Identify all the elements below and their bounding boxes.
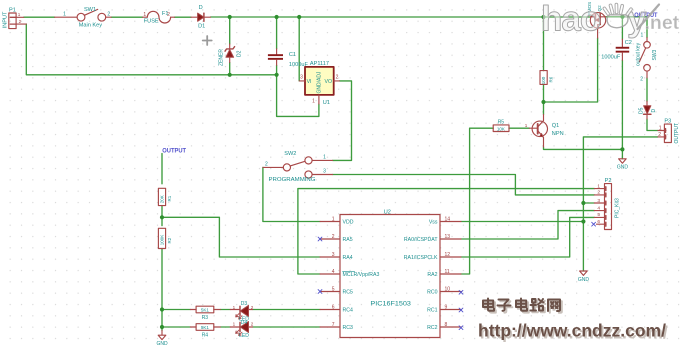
svg-text:2: 2 — [640, 77, 643, 83]
wire GND stub below C2 junction — [621, 149, 623, 158]
svg-text:GND: GND — [156, 341, 168, 347]
resistor R2 — [158, 228, 165, 248]
wire zener bottom — [229, 63, 231, 75]
svg-text:U2: U2 — [384, 210, 391, 216]
SW1 labels — [63, 7, 110, 28]
svg-text:2: 2 — [251, 305, 254, 310]
F1 labels — [143, 11, 170, 24]
svg-text:PROGRAMMING: PROGRAMMING — [269, 177, 316, 183]
zener diode D2 — [225, 44, 235, 63]
svg-text:RA5: RA5 — [343, 237, 353, 243]
svg-text:Q1: Q1 — [552, 123, 559, 129]
transistor Q2 PMOS — [590, 13, 605, 38]
wire C1 top — [276, 17, 278, 49]
svg-text:D: D — [199, 5, 203, 11]
wire rail to U1 VI — [298, 17, 300, 81]
MCU U2 PIC16F1503 — [320, 215, 461, 338]
wire SW2.3 to P2.2 — [333, 175, 595, 195]
svg-text:2: 2 — [336, 75, 339, 81]
wire SW3.2 to D5 — [646, 78, 648, 101]
svg-text:1000uF: 1000uF — [289, 62, 309, 68]
svg-text:D4: D4 — [241, 320, 248, 326]
P1 labels — [2, 8, 21, 29]
svg-text:2: 2 — [251, 322, 254, 327]
D5 labels — [638, 107, 657, 114]
LED D3 — [230, 305, 252, 319]
junction GND column P2.3 — [581, 201, 585, 205]
svg-text:1: 1 — [525, 123, 528, 128]
svg-text:1: 1 — [233, 305, 236, 310]
wire R1 to junction — [161, 206, 163, 226]
wire C2 top — [621, 17, 623, 39]
svg-text:2: 2 — [107, 12, 110, 18]
fuse F1 — [143, 11, 175, 23]
switch SW3 — [639, 38, 650, 78]
wire divider junction to U2 RA4 — [162, 217, 320, 257]
svg-text:1: 1 — [233, 322, 236, 327]
wire PMOS drain to SW3 corner — [606, 17, 647, 38]
svg-text:D3: D3 — [241, 301, 248, 307]
svg-text:2: 2 — [332, 234, 335, 240]
wire R6 bottom to gate junction — [543, 84, 545, 102]
svg-text:1: 1 — [312, 99, 315, 105]
svg-text:Vss: Vss — [429, 219, 438, 225]
svg-text:http://www.cndzz.com/: http://www.cndzz.com/ — [478, 321, 666, 341]
svg-text:RA4: RA4 — [343, 255, 353, 261]
resistor R6 — [540, 71, 547, 85]
Q1 labels — [552, 123, 564, 137]
R3 labels — [201, 308, 210, 321]
svg-text:8: 8 — [445, 322, 448, 328]
transistor Q1 NPN — [532, 115, 547, 148]
wire U1 VO to SW2.1 — [333, 81, 352, 160]
svg-text:U1: U1 — [323, 100, 330, 106]
svg-text:10K: 10K — [497, 126, 505, 131]
svg-text:3: 3 — [323, 169, 326, 175]
svg-text:RA2: RA2 — [427, 272, 437, 278]
svg-text:INPUT: INPUT — [2, 11, 8, 28]
wire Q1 emitter to GND junction — [544, 147, 623, 149]
wire U2 RA0/ICSPDAT to P2.4 — [461, 211, 594, 239]
svg-text:11: 11 — [445, 269, 450, 275]
junction rail-U1VI — [297, 15, 301, 19]
wire P1.1 to SW1 — [24, 16, 55, 18]
svg-text:5: 5 — [332, 286, 335, 292]
svg-text:P2: P2 — [605, 178, 612, 184]
watermark cndzz bottom right — [478, 299, 668, 343]
svg-text:GND: GND — [578, 277, 590, 283]
wire D5 to P3.1 — [647, 119, 658, 131]
wire LED branch 2 — [162, 326, 190, 328]
junction bottom-rail zener — [228, 73, 232, 77]
ground symbol bottom-left — [158, 331, 166, 340]
svg-text:R4: R4 — [202, 332, 209, 338]
svg-text:14: 14 — [445, 216, 451, 222]
LED D4 — [230, 322, 252, 336]
wire R5 to Q1 base — [509, 127, 529, 129]
svg-text:VO: VO — [325, 79, 333, 85]
wire SW2.2 to U2 VDD — [263, 167, 320, 221]
svg-text:6: 6 — [332, 304, 335, 310]
wire gate junction to Q2 gate — [544, 38, 598, 102]
svg-text:PIC16F1503: PIC16F1503 — [370, 302, 411, 308]
SW2 labels — [265, 151, 326, 183]
svg-text:100K: 100K — [159, 235, 164, 246]
wire MCLR net: P2.1 to U2 pin4 — [298, 189, 594, 274]
D4 labels — [233, 320, 254, 339]
svg-text:2: 2 — [167, 12, 170, 18]
svg-text:3: 3 — [300, 75, 303, 81]
no-connect crosses — [318, 222, 595, 329]
wire zener top — [229, 17, 231, 44]
svg-text:C1: C1 — [289, 52, 296, 58]
svg-text:5K1: 5K1 — [201, 325, 210, 330]
svg-text:13: 13 — [445, 234, 451, 240]
wire C1 bottom — [276, 65, 278, 75]
svg-text:AP1117: AP1117 — [310, 61, 329, 67]
svg-text:2: 2 — [597, 190, 600, 196]
C1 labels — [289, 52, 309, 68]
resistor R5 — [493, 125, 538, 132]
svg-text:1: 1 — [332, 216, 335, 222]
D3 labels — [233, 301, 254, 323]
svg-text:20K: 20K — [159, 195, 164, 203]
svg-text:4: 4 — [597, 205, 600, 211]
connector P3 — [658, 124, 672, 142]
svg-text:FUSE: FUSE — [144, 18, 159, 24]
svg-text:GND: GND — [617, 165, 629, 171]
svg-text:P3: P3 — [664, 119, 671, 125]
R1 labels — [159, 195, 172, 203]
svg-text:RC5: RC5 — [343, 289, 353, 295]
svg-text:12: 12 — [445, 252, 451, 258]
svg-text:C2: C2 — [625, 40, 632, 46]
svg-text:R5: R5 — [498, 119, 505, 125]
wire U1 GND/ADJ to bottom rail — [277, 75, 319, 117]
SW3 labels — [636, 33, 659, 83]
watermark haoyw.net top right — [541, 0, 680, 39]
switch SW1 — [55, 9, 112, 21]
svg-text:R6: R6 — [549, 76, 554, 82]
wire SW1 to F1 — [111, 16, 142, 18]
svg-text:10: 10 — [445, 286, 451, 292]
svg-text:hao: hao — [541, 0, 601, 39]
regulator U1 AP1117 — [299, 67, 339, 104]
svg-text:LED: LED — [239, 333, 249, 339]
junction rail-C1 — [275, 15, 279, 19]
svg-text:R1: R1 — [167, 195, 172, 201]
svg-text:RC3: RC3 — [343, 325, 353, 331]
R4 labels — [201, 325, 210, 338]
svg-text:P1: P1 — [9, 8, 16, 14]
junction LED branch2 — [160, 325, 164, 329]
Q2 labels — [587, 2, 602, 16]
junction bottom-rail C1 — [275, 73, 279, 77]
junction GND column Vss — [581, 219, 585, 223]
wire OUTPUT label to R1 — [161, 154, 163, 184]
wire P1.2 down and right (bottom rail) — [26, 24, 276, 75]
svg-text:5: 5 — [597, 212, 600, 218]
junction gate node — [541, 100, 545, 104]
svg-text:SW2: SW2 — [284, 151, 296, 157]
svg-text:100: 100 — [541, 76, 546, 84]
svg-text:R2: R2 — [167, 237, 172, 243]
svg-text:1: 1 — [597, 183, 600, 189]
svg-text:D5: D5 — [638, 107, 644, 114]
svg-text:PIC_Kit3: PIC_Kit3 — [614, 198, 620, 218]
switch SW2 — [263, 157, 333, 178]
svg-text:1000uF: 1000uF — [601, 55, 621, 61]
svg-text:2: 2 — [658, 132, 661, 138]
svg-text:GND/ADJ: GND/ADJ — [316, 71, 322, 93]
capacitor C1 — [268, 49, 283, 66]
R6 labels — [541, 76, 554, 84]
diode D1 — [191, 13, 211, 21]
svg-text:2: 2 — [265, 161, 268, 167]
resistor R3 — [190, 306, 220, 313]
U1 labels — [300, 61, 339, 106]
svg-text:RA0/ICSPDAT: RA0/ICSPDAT — [404, 237, 438, 243]
svg-text:RA1/ICSPCLK: RA1/ICSPCLK — [404, 255, 438, 261]
ground symbol below C2/emitter — [619, 159, 627, 163]
junction rail-zener — [228, 15, 232, 19]
wire D1 to PMOS source (top rail) — [211, 16, 591, 18]
wire R2 to GND column — [161, 249, 163, 331]
D2 labels — [218, 49, 242, 66]
C2 labels — [601, 40, 632, 60]
resistor R1 — [158, 188, 165, 205]
P3 labels — [658, 119, 680, 144]
svg-text:1: 1 — [18, 12, 21, 17]
svg-text:RC4: RC4 — [343, 307, 353, 313]
svg-text:.net: .net — [645, 12, 680, 34]
wire F1 to D1 — [175, 16, 192, 18]
P2 labels — [597, 178, 620, 225]
svg-text:Main Key: Main Key — [79, 22, 103, 28]
svg-text:RC1: RC1 — [427, 307, 437, 313]
svg-text:output key: output key — [636, 42, 642, 66]
svg-text:OUTPUT: OUTPUT — [162, 148, 186, 154]
svg-text:9: 9 — [445, 304, 448, 310]
diode D5 — [644, 101, 651, 119]
svg-text:6: 6 — [597, 219, 600, 225]
svg-text:OUTPUT: OUTPUT — [674, 123, 680, 144]
wire U2 RA2 to R5 — [461, 128, 493, 274]
R5 labels — [497, 119, 528, 131]
capacitor C2 — [616, 39, 630, 60]
wire U2 Vss to GND column — [461, 221, 583, 223]
svg-text:3: 3 — [597, 198, 600, 204]
svg-text:5K1: 5K1 — [201, 308, 210, 313]
svg-text:SW1: SW1 — [84, 7, 96, 13]
svg-text:NPN: NPN — [552, 131, 564, 137]
wire LED branch 1 — [162, 309, 190, 311]
svg-text:1: 1 — [323, 155, 326, 161]
junction LED branch1 — [160, 307, 164, 311]
svg-text:2: 2 — [19, 19, 22, 24]
wire U2 RA1/ICSPCLK to P2.5 — [461, 217, 594, 257]
resistor R4 — [190, 324, 220, 331]
svg-text:1: 1 — [63, 12, 66, 18]
junction divider — [160, 215, 164, 219]
svg-text:3: 3 — [332, 252, 335, 258]
connector P1 — [9, 13, 27, 29]
svg-text:RC2: RC2 — [427, 325, 437, 331]
svg-text:1: 1 — [143, 12, 146, 18]
wire R6 top — [543, 17, 545, 71]
svg-text:R3: R3 — [202, 315, 209, 321]
svg-text:1: 1 — [659, 125, 662, 131]
svg-text:D1: D1 — [198, 24, 205, 30]
junction drain-C2 — [620, 15, 624, 19]
wire P2.3 stub join — [583, 202, 594, 204]
R2 labels — [159, 235, 172, 246]
wire C2 bottom to GND junction — [621, 60, 623, 149]
svg-text:D: D — [651, 109, 657, 113]
svg-text:VDD: VDD — [343, 219, 354, 225]
svg-text:ZENER: ZENER — [218, 49, 224, 66]
svg-text:4: 4 — [332, 269, 335, 275]
svg-text:SW3: SW3 — [652, 49, 658, 60]
D1 labels — [198, 5, 205, 29]
ground symbol below P2 GND column — [580, 271, 588, 275]
svg-text:RC0: RC0 — [427, 289, 437, 295]
junction emitter GND — [620, 147, 624, 151]
junction rail-R6 — [541, 15, 545, 19]
grey plus marker — [203, 36, 212, 45]
svg-text:MCLR/Vpp/RA3: MCLR/Vpp/RA3 — [343, 272, 380, 278]
svg-text:D2: D2 — [236, 50, 242, 57]
svg-text:VI: VI — [307, 79, 312, 85]
wire P3.2 to GND column — [583, 137, 658, 271]
U2 labels — [332, 210, 451, 331]
svg-text:7: 7 — [332, 322, 335, 328]
wire Q1 collector — [543, 102, 545, 115]
connector P2 — [594, 184, 611, 230]
